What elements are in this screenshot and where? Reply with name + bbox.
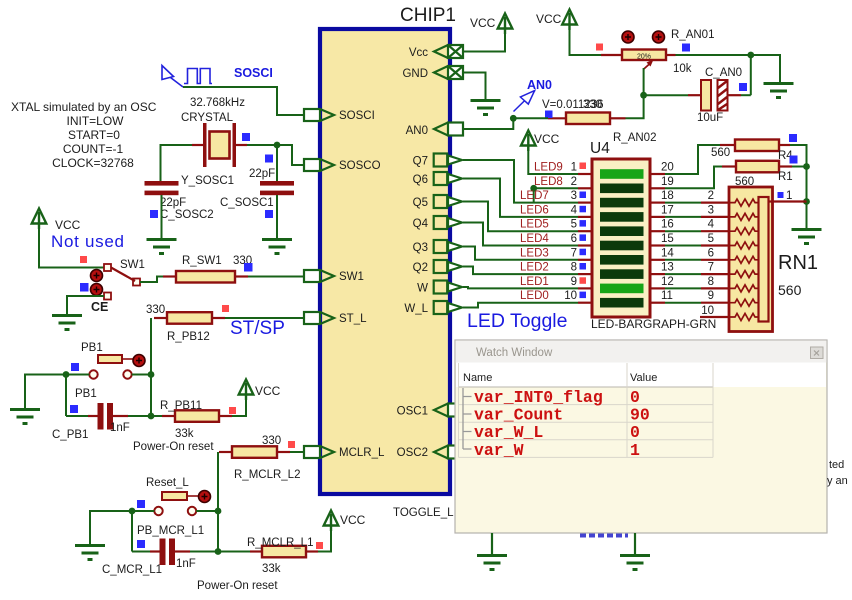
potentiometer R_AN01 actuators [622,31,665,43]
watch window grid lines [459,363,714,457]
wire R_SW1 to pin SW1 [248,276,304,278]
pin ST_L [304,312,334,324]
node PB1 right junctions [132,371,155,419]
svg-text:560: 560 [711,147,730,159]
marker blue square R_AN02 [545,111,553,119]
svg-text:INIT=LOW: INIT=LOW [66,114,124,128]
svg-text:Power-On reset: Power-On reset [133,441,214,453]
svg-text:Q3: Q3 [413,242,428,254]
svg-text:32.768kHz: 32.768kHz [190,97,245,109]
svg-text:1: 1 [571,162,577,174]
switch SW1 [104,259,145,300]
pin Vcc [434,45,463,58]
svg-text:330: 330 [262,435,281,447]
svg-text:ted: ted [829,459,844,471]
node Reset_L junctions [196,508,221,555]
marker blue square RN1 pin1 [778,192,784,198]
node RN1 pin1 junction [803,198,810,205]
svg-text:Name: Name [463,372,492,384]
svg-text:C_AN0: C_AN0 [705,67,742,79]
watch row var_W_L [463,414,640,442]
svg-text:10: 10 [564,290,577,302]
RN1 pin1 wire [769,190,807,202]
wire VCC to R_AN01 [570,28,602,55]
svg-text:LED3: LED3 [520,247,549,259]
resistor R_PB11 33k [151,400,232,440]
wire R_MCLR_L2 down to Reset_L [217,452,219,552]
ground under PB_MCR_L1 [75,546,105,560]
pin Q3 [434,240,462,253]
svg-text:W_L: W_L [404,303,428,315]
svg-text:Q4: Q4 [413,218,429,230]
ground at RN1 [792,230,822,244]
node LED8 junction wire [530,185,578,203]
bargraph segments [600,169,644,307]
label Reset_L [146,477,189,489]
watch window frame [455,340,827,533]
wire R_AN01 to ground [676,55,781,82]
svg-text:Value: Value [630,372,657,384]
svg-text:SOSCI: SOSCI [234,66,273,80]
svg-text:C_MCR_L1: C_MCR_L1 [102,564,162,576]
svg-text:LED6: LED6 [520,204,549,216]
artifact blue dashes [580,534,628,538]
net label SOSCI [234,66,273,80]
svg-text:22pF: 22pF [160,197,186,209]
wire row19 to R1 [665,167,722,189]
wire R_MCLR_L1 to VCC [318,529,331,552]
svg-text:R_SW1: R_SW1 [182,255,222,267]
svg-text:LED7: LED7 [520,190,549,202]
svg-text:GND: GND [402,68,428,80]
svg-text:1nF: 1nF [176,558,196,570]
svg-text:20%: 20% [637,54,651,61]
resistor R_MCLR_L2 330 [219,435,300,481]
svg-text:R_PB12: R_PB12 [167,331,210,343]
svg-text:R_AN01: R_AN01 [671,29,714,41]
ground below window left [477,556,507,570]
svg-text:3: 3 [571,190,577,202]
svg-text:AN0: AN0 [527,78,552,92]
marker blue square C_AN0 [739,83,747,91]
pin numbers 1-10 bargraph left [564,162,577,303]
wire AN0 pin to R_AN02 [463,118,548,129]
svg-text:0: 0 [630,423,640,442]
push button PB1 actuator [133,355,145,367]
marker blue square SW1 [80,283,89,292]
label TOGGLE_L [393,507,454,519]
power VCC at chip Vcc [470,14,512,35]
wire Q4 to LED4 row [463,223,578,246]
wire R4 R1 to ground rail [790,145,807,228]
pin SW1 [304,270,334,282]
svg-text:2: 2 [571,176,577,188]
svg-text:OSC1: OSC1 [397,406,428,418]
svg-text:4: 4 [571,204,578,216]
wire Q3 to LED3 row [463,247,578,260]
svg-text:15: 15 [661,233,674,245]
wire W to LED1 row [463,287,578,288]
svg-text:Q7: Q7 [413,156,428,168]
power VCC at R_MCLR_L1 [324,511,366,532]
value text V=0.011233 overlapped 330 [542,99,604,111]
svg-text:AN0: AN0 [406,125,428,137]
wires rows18-11 to RN1 [665,203,701,303]
wire PB_MCR_L1 left to ground [90,511,154,544]
svg-text:VCC: VCC [55,218,81,232]
svg-text:VCC: VCC [536,12,562,26]
svg-text:LED-BARGRAPH-GRN: LED-BARGRAPH-GRN [591,317,716,331]
svg-text:5: 5 [571,219,577,231]
clock generator SOSCI [162,66,212,88]
wire OSC2 ground stem [634,533,636,554]
ground under PB1 [10,410,40,424]
potentiometer R_AN01 10k [601,29,714,75]
marker blue square R_SW1 [244,263,253,272]
svg-text:14: 14 [661,247,674,259]
probe AN0 [514,91,536,112]
svg-text:W: W [417,283,428,295]
ground right of R_AN01 [764,84,794,98]
watch row var_Count [463,397,650,425]
svg-text:1: 1 [786,190,792,202]
wire VCC to SW1 [39,228,104,268]
marker red square R_PB11 [229,407,236,414]
wire pin Vcc to VCC [463,32,505,52]
svg-text:13: 13 [661,262,674,274]
svg-text:20: 20 [661,162,674,174]
svg-text:3: 3 [708,204,714,216]
label LED-BARGRAPH-GRN [591,317,716,331]
wire pin GND to ground [463,73,486,100]
svg-text:0: 0 [630,388,640,407]
svg-text:CE: CE [91,300,108,314]
wire C_AN0 to junction [741,94,751,96]
wire Q5 to LED5 row [463,202,578,232]
marker squares bargraph left [580,163,587,299]
net label LED Toggle [467,310,567,332]
wire clock to SOSCI pin [183,87,304,115]
svg-text:MCLR_L: MCLR_L [339,447,385,459]
svg-text:C_SOSC2: C_SOSC2 [160,209,214,221]
svg-text:Vcc: Vcc [409,47,428,59]
svg-text:C_PB1: C_PB1 [52,429,88,441]
svg-text:LED4: LED4 [520,233,549,245]
wire crystal right to SOSCO pin [247,145,304,165]
marker red square R_AN01 [596,44,603,51]
svg-text:33k: 33k [262,563,281,575]
svg-text:6: 6 [708,247,714,259]
power VCC not-used [32,209,81,233]
capacitor C_AN0 10uF [688,67,742,124]
ground under C_SOSC1 [262,240,292,254]
power VCC at R_PB11 [239,380,281,401]
svg-text:LED0: LED0 [520,290,549,302]
wire C_SOSC1 to ground [276,195,278,239]
pin Q5 [434,195,462,208]
net label Not used [51,232,125,251]
svg-text:R_MCLR_L2: R_MCLR_L2 [234,469,300,481]
wire Q2 to LED2 row [463,267,578,275]
wire PB1 left to ground [25,375,89,410]
svg-text:VCC: VCC [534,132,560,146]
svg-text:Q6: Q6 [413,174,428,186]
wire SW1 to ground [67,296,104,315]
push button PB_MCR_L1 [137,492,204,537]
RN1 left leads [700,203,729,317]
pin OSC1 [434,404,463,417]
svg-text:CLOCK=32768: CLOCK=32768 [52,156,134,170]
marker red square R_PB12 [222,305,229,312]
capacitor C_MCR_L1 1nF [102,539,196,577]
svg-text:R_PB11: R_PB11 [160,400,202,412]
svg-text:10: 10 [701,305,714,317]
svg-text:19: 19 [661,176,674,188]
svg-text:33k: 33k [175,428,194,440]
svg-text:PB1: PB1 [81,342,103,354]
power VCC at R_AN01 [536,10,577,31]
LED bargraph U4 body [590,140,650,317]
label CE [91,300,108,314]
resistor network RN1 body [729,187,818,332]
svg-text:var_W: var_W [474,441,524,460]
svg-text:var_W_L: var_W_L [474,423,543,442]
wire R_MCLR_L2 to pin MCLR_L [290,451,304,453]
ground at chip GND [471,101,501,115]
pin AN0 [434,123,463,136]
svg-text:90: 90 [630,406,650,425]
svg-text:START=0: START=0 [68,128,120,142]
pin GND [434,66,463,79]
wire R_PB12 down to PB1 [150,318,152,416]
watch window table header [456,363,826,388]
wire W_L to LED0 row [463,303,578,308]
net label AN0 [527,78,552,92]
note Power-On reset 2 [197,580,278,592]
ground under SW1 [52,316,82,330]
svg-text:330: 330 [146,304,165,316]
svg-text:CHIP1: CHIP1 [400,5,456,26]
pin OSC2 [434,446,463,459]
svg-text:Y_SOSC1: Y_SOSC1 [181,175,234,187]
ground under C_SOSC2 [147,240,177,254]
pin Q4 [434,216,462,229]
svg-text:LED Toggle: LED Toggle [467,310,567,332]
capacitor C_SOSC2 [145,181,214,221]
marker red square R_MCLR_L2 [288,441,295,448]
push button PB_MCR_L1 actuator [199,491,211,503]
svg-text:1: 1 [630,441,640,460]
wire C_PB1 to junction [128,415,151,417]
ground below window right [620,556,650,570]
svg-text:C_SOSC1: C_SOSC1 [220,197,274,209]
svg-text:R_AN02: R_AN02 [613,132,656,144]
svg-text:LED8: LED8 [534,176,563,188]
svg-text:VCC: VCC [340,513,366,527]
svg-text:16: 16 [661,219,674,231]
svg-text:4: 4 [708,219,715,231]
marker blue square R_AN01 [682,44,690,52]
wire C_SOSC2 to ground [161,195,163,239]
bargraph U4 right leads [650,174,665,303]
svg-text:XTAL simulated by an OSC: XTAL simulated by an OSC [11,100,157,114]
svg-text:ST/SP: ST/SP [230,318,285,339]
label PB1 lower [75,388,97,400]
resistor R_SW1 330 [163,255,252,283]
resistor R_MCLR_L1 33k [218,537,318,575]
resistor R_PB12 330 [146,304,225,343]
pin Q2 [434,260,462,273]
svg-text:VCC: VCC [255,384,281,398]
crystal Y_SOSC1 [181,97,247,187]
svg-text:SW1: SW1 [339,271,364,283]
wire R_PB11 to VCC [232,398,246,416]
svg-text:Watch Window: Watch Window [476,347,553,359]
svg-text:LED1: LED1 [520,276,549,288]
chip pin labels [339,47,429,459]
svg-text:var_Count: var_Count [474,406,563,425]
watch row var_INT0_flag [463,388,640,407]
svg-text:COUNT=-1: COUNT=-1 [63,142,124,156]
svg-text:Not used: Not used [51,232,125,251]
pin numbers 20-11 bargraph right [661,162,674,303]
svg-text:560: 560 [778,282,802,298]
pin Q6 [434,172,462,185]
svg-text:Power-On reset: Power-On reset [197,580,278,592]
switch SW1 actuators [91,270,103,296]
svg-text:R1: R1 [778,171,793,183]
svg-text:2: 2 [708,190,714,202]
node PB1 left junction [63,371,70,416]
svg-text:Reset_L: Reset_L [146,477,189,489]
net labels LED9-LED0 [520,162,563,303]
svg-text:SOSCI: SOSCI [339,110,375,122]
wire VCC to LED9 row [528,146,578,174]
svg-text:11: 11 [661,290,673,302]
node crystal/C_SOSC1 junction [274,142,281,181]
svg-text:17: 17 [661,204,674,216]
pin SOSCI [304,109,334,121]
svg-text:Q2: Q2 [413,262,428,274]
svg-text:ST_L: ST_L [339,313,367,325]
svg-text:8: 8 [708,276,714,288]
label PB1 top [81,342,103,354]
marker blue squares PB1 [70,363,79,413]
pin MCLR_L [304,446,334,458]
power VCC at LED9 [521,131,560,152]
svg-text:SOSCO: SOSCO [339,160,381,172]
node AN0 junction [510,115,517,122]
pin numbers RN1 left [701,190,714,317]
wire R_PB12 to pin ST_L [225,317,304,319]
svg-text:LED9: LED9 [534,162,563,174]
marker red square SW1 [80,256,87,263]
net label ST/SP [230,318,285,339]
chip U CHIP1 body [320,5,456,494]
svg-text:PB1: PB1 [75,388,97,400]
svg-text:22pF: 22pF [249,168,275,180]
svg-text:CRYSTAL: CRYSTAL [181,112,234,124]
resistor R_AN02 330 [548,113,656,145]
bargraph U4 left leads [578,174,592,303]
pin W_L [434,301,462,314]
svg-text:PB_MCR_L1: PB_MCR_L1 [137,525,204,537]
wire Q6 to LED6 row [463,179,578,217]
svg-text:U4: U4 [590,140,610,157]
svg-text:9: 9 [571,276,577,288]
svg-text:8: 8 [571,262,577,274]
svg-text:Q5: Q5 [413,197,428,209]
svg-text:12: 12 [661,276,674,288]
svg-text:LED5: LED5 [520,219,549,231]
RN1 zigzag elements [729,199,759,320]
push button PB1 [89,355,133,379]
wire row20 to R4 [665,145,720,174]
marker blue squares PB_MCR_L1 [137,500,145,548]
svg-text:10k: 10k [673,63,692,75]
svg-text:TOGGLE_L: TOGGLE_L [393,507,454,519]
wire wiper junction [626,68,689,118]
wire C_MCR_L1 to junction [190,551,218,553]
wire crystal left to C_SOSC2 [161,145,193,181]
svg-text:1nF: 1nF [110,422,130,434]
watch row var_W [463,432,640,460]
note text XTAL block [11,100,157,170]
svg-text:18: 18 [661,190,674,202]
pin Q7 [434,154,462,167]
svg-text:OSC2: OSC2 [397,447,428,459]
svg-text:6: 6 [571,233,577,245]
node R1 junction [803,163,810,170]
hidden text fragments right of window [827,459,848,487]
svg-text:RN1: RN1 [778,252,818,274]
marker blue squares crystal area [150,133,273,218]
svg-text:9: 9 [708,290,714,302]
pin SOSCO [304,159,334,171]
wire SW1 to R_SW1 [140,277,163,283]
pin W [434,281,462,294]
capacitor C_PB1 1nF [52,403,130,441]
svg-text:10uF: 10uF [697,112,723,124]
svg-text:SW1: SW1 [120,259,145,271]
resistor R1 560 [722,161,793,188]
capacitor C_SOSC1 [220,168,294,209]
svg-text:y an: y an [827,475,848,487]
svg-text:5: 5 [708,233,714,245]
node PB_MCR_L1 left junction [129,508,136,552]
svg-text:VCC: VCC [470,16,496,30]
svg-text:7: 7 [571,247,577,259]
note Power-On reset 1 [133,441,214,453]
svg-text:V=0.011236: V=0.011236 [542,99,604,111]
svg-text:var_INT0_flag: var_INT0_flag [474,388,603,407]
svg-text:LED2: LED2 [520,262,549,274]
wire OSC1 ground stem [491,533,493,554]
svg-text:7: 7 [708,262,714,274]
marker red square R_MCLR_L1 [316,542,323,549]
wire Q7 to LED7 row [463,160,578,203]
resistor R4 560 [711,140,793,163]
svg-text:R_MCLR_L1: R_MCLR_L1 [247,537,313,549]
node R_AN01/C_AN0 junction [747,52,754,96]
marker blue squares R4 R1 [789,134,798,164]
